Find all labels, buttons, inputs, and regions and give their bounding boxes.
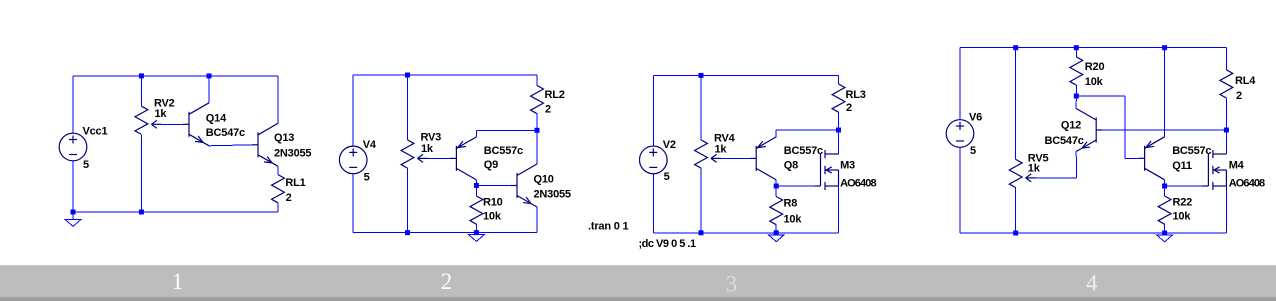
svg-text:5: 5 [664, 171, 670, 183]
svg-text:BC547c: BC547c [206, 127, 245, 139]
svg-text:AO6408: AO6408 [840, 177, 876, 189]
svg-text:R20: R20 [1085, 61, 1105, 73]
svg-text:1k: 1k [155, 108, 168, 120]
svg-text:1k: 1k [715, 143, 728, 155]
svg-text:5: 5 [364, 171, 370, 183]
svg-text:5: 5 [83, 159, 89, 171]
svg-text:Q8: Q8 [784, 159, 798, 171]
svg-text:AO6408: AO6408 [1229, 177, 1265, 189]
svg-text:2: 2 [846, 102, 852, 114]
svg-text:1: 1 [172, 269, 184, 294]
svg-text:RL3: RL3 [846, 89, 866, 101]
svg-text:Q13: Q13 [274, 132, 294, 144]
svg-text:V6: V6 [969, 111, 982, 123]
svg-text:M3: M3 [840, 160, 855, 172]
svg-text:RL1: RL1 [285, 177, 305, 189]
svg-text:Q9: Q9 [484, 159, 498, 171]
svg-text:;dc V9 0 5 .1: ;dc V9 0 5 .1 [639, 238, 696, 250]
svg-text:Q11: Q11 [1172, 160, 1192, 172]
svg-text:R22: R22 [1173, 197, 1193, 209]
svg-text:2: 2 [441, 269, 453, 294]
svg-text:Q12: Q12 [1061, 120, 1081, 132]
svg-text:1k: 1k [1028, 162, 1041, 174]
svg-text:4: 4 [1086, 271, 1098, 296]
svg-text:Vcc1: Vcc1 [83, 125, 108, 137]
svg-text:RV3: RV3 [421, 132, 442, 144]
svg-text:10k: 10k [1173, 210, 1192, 222]
svg-text:BC547c: BC547c [1045, 135, 1084, 147]
svg-text:2: 2 [1236, 90, 1242, 102]
svg-text:R10: R10 [483, 197, 503, 209]
svg-text:RL4: RL4 [1235, 75, 1256, 87]
svg-text:RL2: RL2 [545, 89, 565, 101]
svg-text:10k: 10k [784, 214, 803, 226]
svg-text:BC557c: BC557c [484, 145, 523, 157]
svg-text:2N3055: 2N3055 [534, 188, 571, 200]
svg-text:.tran 0 1: .tran 0 1 [588, 221, 628, 233]
svg-text:5: 5 [970, 145, 976, 157]
svg-text:10k: 10k [483, 211, 502, 223]
svg-text:10k: 10k [1085, 76, 1104, 88]
svg-text:2N3055: 2N3055 [274, 148, 311, 160]
svg-text:Q14: Q14 [206, 113, 227, 125]
svg-text:Q10: Q10 [534, 174, 554, 186]
svg-text:3: 3 [726, 272, 738, 297]
svg-text:M4: M4 [1229, 160, 1245, 172]
svg-text:R8: R8 [784, 198, 798, 210]
svg-text:V2: V2 [663, 139, 676, 151]
svg-text:V4: V4 [363, 139, 377, 151]
svg-text:BC557c: BC557c [1172, 145, 1211, 157]
svg-text:1k: 1k [421, 143, 434, 155]
svg-text:2: 2 [286, 192, 292, 204]
svg-text:BC557c: BC557c [784, 145, 823, 157]
svg-text:2: 2 [545, 103, 551, 115]
